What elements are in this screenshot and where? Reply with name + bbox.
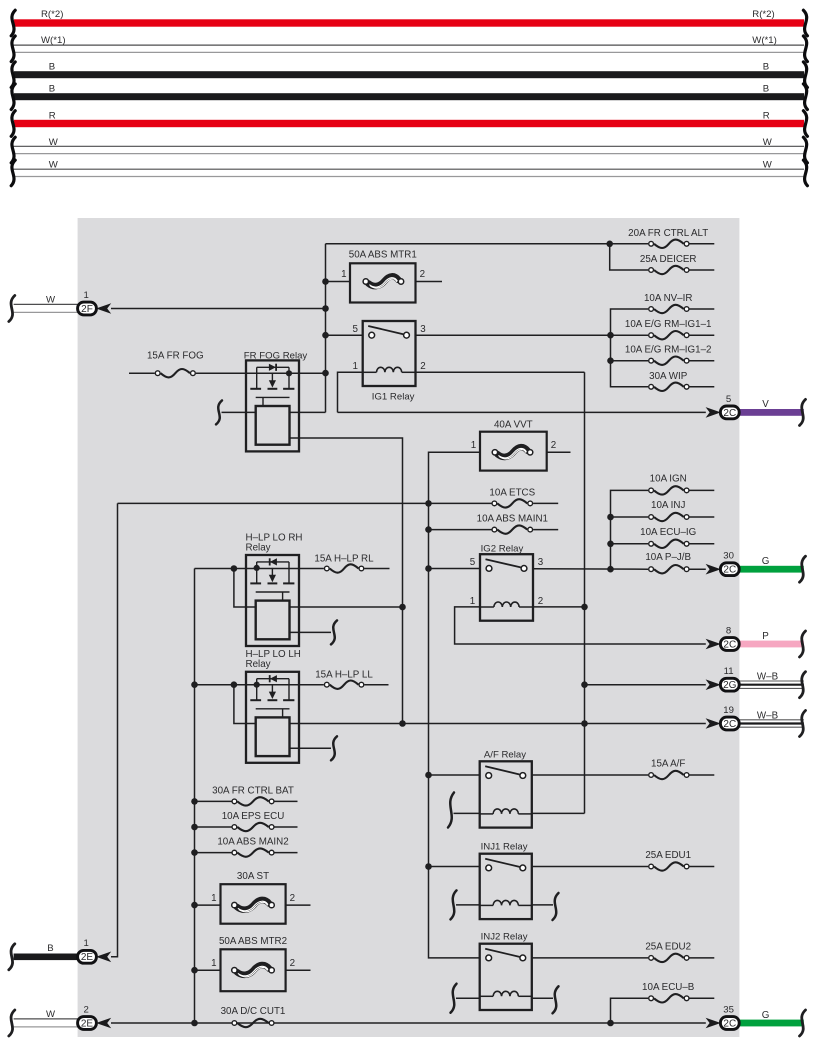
svg-text:1: 1 <box>341 269 346 280</box>
wire INJ1 switch to 25A EDU1 fuse and stub <box>532 866 648 868</box>
svg-text:W: W <box>46 295 56 306</box>
svg-text:INJ1 Relay: INJ1 Relay <box>481 841 528 852</box>
harness wire B (B) <box>14 93 804 100</box>
svg-text:W(*1): W(*1) <box>752 35 777 46</box>
svg-text:2E: 2E <box>81 1018 94 1029</box>
svg-text:40A VVT: 40A VVT <box>494 420 533 431</box>
svg-text:INJ2 Relay: INJ2 Relay <box>481 931 528 942</box>
svg-text:B: B <box>49 84 55 95</box>
wire connector 2F pin 1 to bus A <box>111 308 326 310</box>
fuse 15A FR FOG <box>161 369 190 377</box>
fuse 15A H-LP RL <box>330 564 359 572</box>
svg-text:FR FOG Relay: FR FOG Relay <box>244 350 308 361</box>
wire H-LP LH middle-pin L-link <box>234 685 256 724</box>
svg-text:5: 5 <box>470 557 476 568</box>
wire IG2 pin 2 to bus D <box>533 606 585 608</box>
svg-text:8: 8 <box>726 625 731 636</box>
wire 10A EPS ECU row <box>195 826 232 828</box>
svg-text:2: 2 <box>420 269 425 280</box>
fuse 30A D/C CUT1 <box>237 1019 268 1027</box>
svg-text:W: W <box>46 1009 56 1020</box>
wire H-LP RH middle pin to bus C <box>290 606 403 608</box>
svg-text:30A ST: 30A ST <box>237 871 269 882</box>
svg-text:B: B <box>763 84 769 95</box>
connector 2E pin 2 (W wire) <box>14 1018 78 1020</box>
wire 40A VVT pin 2 stub <box>547 451 571 453</box>
node H-LP LH input tap <box>231 681 238 688</box>
wire bus E vertical (VVT / ETCS / ABS MAIN1 / IG2-5 / A-F / INJ relays) <box>429 452 481 958</box>
svg-text:2C: 2C <box>723 1018 736 1029</box>
wire 10A ABS MAIN2 row <box>195 852 232 854</box>
wire H-LP LO RH input row <box>195 568 324 570</box>
svg-text:15A H–LP LL: 15A H–LP LL <box>315 670 373 681</box>
wire 15A H-LP RL output stub <box>364 568 389 570</box>
wire 10A ETCS stub <box>533 502 558 504</box>
fuse 10A ABS MAIN1 <box>497 525 527 533</box>
connector 2C pin 8 (P wire) <box>739 641 804 648</box>
wire 30A WIP stub <box>690 386 715 388</box>
wire 10A IGN stub <box>690 489 715 491</box>
fuse 10A E/G RM-IG1-1 <box>654 331 684 339</box>
svg-text:Relay: Relay <box>246 542 271 553</box>
svg-text:10A ECU–IG: 10A ECU–IG <box>640 527 696 538</box>
wire bottom rail 2E-2 to 2C-35 <box>111 1022 706 1024</box>
wire INJ1 relay switch feed from bus E <box>429 866 480 868</box>
wire INJ2 switch to 25A EDU2 fuse and stub <box>532 957 648 959</box>
svg-text:W: W <box>49 160 59 171</box>
svg-text:30A WIP: 30A WIP <box>649 371 688 382</box>
wire 10A ABS MAIN1 stub <box>533 529 558 531</box>
relay INJ2 <box>480 944 532 1010</box>
wire 10A E/G RM-IG1-2 stub <box>690 360 715 362</box>
harness wire R (R) <box>14 120 804 127</box>
connector 2C pin 35 (G wire) <box>739 1020 804 1027</box>
break squiggle H-LP RH output <box>331 620 337 644</box>
svg-text:B: B <box>49 62 55 73</box>
svg-text:5: 5 <box>352 324 358 335</box>
svg-text:R(*2): R(*2) <box>41 9 63 20</box>
relay H-LP LO RH (semiconductor) <box>246 555 299 646</box>
svg-text:Relay: Relay <box>246 659 271 670</box>
svg-text:2F: 2F <box>81 304 93 315</box>
wire 20A FR CTRL ALT stub <box>690 243 715 245</box>
fuse 10A INJ <box>654 513 684 521</box>
wire DEICER branch <box>610 244 649 270</box>
node IG fuse bus junctions <box>607 332 614 339</box>
wire FR FOG middle-left to break <box>222 411 256 413</box>
svg-text:30A FR CTRL BAT: 30A FR CTRL BAT <box>212 785 294 796</box>
wire 25A DEICER stub <box>690 269 715 271</box>
svg-text:30: 30 <box>723 551 734 562</box>
svg-text:W–B: W–B <box>757 710 779 721</box>
wire INJ1 coil left break <box>451 890 457 919</box>
wire A/F relay switch feed from bus E <box>429 774 480 776</box>
svg-text:2E: 2E <box>81 952 94 963</box>
wire connector 2G-11 row from bus D <box>585 684 706 686</box>
svg-text:2: 2 <box>290 958 295 969</box>
wire 10A E/G RM-IG1-2 feed <box>611 360 649 362</box>
wire IG1 pin 3 to IG fuse bus (10A E/G RM-IG1-1 row) <box>416 334 649 336</box>
svg-text:IG1 Relay: IG1 Relay <box>372 392 415 403</box>
connector 2F pin 1 (W wire) <box>14 303 78 305</box>
fuse 25A DEICER <box>654 266 684 274</box>
wire 50A ABS MTR2 pin2 stub <box>286 969 311 971</box>
wire 10A ECU-IG stub <box>690 543 715 545</box>
wire A/F relay switch to 15A A/F fuse and stub <box>532 774 648 776</box>
wire A/F relay coil right to bus D <box>532 812 585 814</box>
node bottom rail / ECU-B riser <box>607 1020 614 1027</box>
svg-text:R: R <box>763 110 770 121</box>
fuse 10A ETCS <box>497 499 527 507</box>
wire FR FOG middle row to bus A bottom corner <box>289 411 325 413</box>
svg-text:15A FR FOG: 15A FR FOG <box>147 350 204 361</box>
wire FR FOG relay output to bus C top corner <box>289 438 402 724</box>
svg-text:10A IGN: 10A IGN <box>650 473 687 484</box>
wire 50A ABS MTR1 pin 1 feed <box>326 281 351 283</box>
wire bus A vertical (feeds ABS MTR1 / 2F / IG1 / FR FOG) <box>325 244 327 413</box>
wire H-LP RH output to break <box>290 631 332 633</box>
fuse 50A ABS MTR1 <box>350 263 416 302</box>
relay INJ1 <box>480 854 532 919</box>
wire IG1 pin 5 to bus A <box>326 334 363 336</box>
node bus F junctions <box>191 681 198 688</box>
wire 30A FR CTRL BAT row <box>195 800 232 802</box>
svg-text:V: V <box>762 399 769 410</box>
svg-text:W(*1): W(*1) <box>41 35 66 46</box>
wire IG2 pin 1 to connector 2C-8 (P row) <box>455 607 706 644</box>
svg-text:2C: 2C <box>723 408 736 419</box>
relay A/F <box>480 761 532 827</box>
svg-text:2: 2 <box>84 1004 89 1015</box>
svg-text:2C: 2C <box>723 719 736 730</box>
connector 2C pin 5 (V wire) <box>739 409 804 416</box>
svg-text:1: 1 <box>84 938 89 949</box>
wire H-LP RH middle-pin L-link <box>234 569 256 608</box>
wire 10A INJ feed <box>611 516 649 518</box>
connector 2C pin 30 (G wire) <box>739 566 804 573</box>
harness wire W (W) <box>13 145 804 147</box>
svg-text:10A ABS MAIN1: 10A ABS MAIN1 <box>477 514 548 525</box>
svg-text:25A EDU1: 25A EDU1 <box>645 850 691 861</box>
node bus C junctions <box>399 604 406 611</box>
break squiggle H-LP LH output <box>331 736 337 760</box>
wire 10A ECU-IG feed <box>611 543 649 545</box>
svg-text:10A ECU–B: 10A ECU–B <box>642 982 695 993</box>
wire V output row (IG1 pin1 to connector 2C-5) <box>338 411 706 413</box>
wire 10A E/G RM-IG1-1 stub <box>690 334 715 336</box>
svg-text:R(*2): R(*2) <box>752 9 774 20</box>
svg-text:10A E/G RM–IG1–2: 10A E/G RM–IG1–2 <box>625 345 712 356</box>
fuse 25A EDU2 <box>654 954 684 962</box>
svg-text:2: 2 <box>538 596 543 607</box>
connector 2G pin 11 (W–B wire) <box>739 681 804 689</box>
svg-text:10A E/G RM–IG1–1: 10A E/G RM–IG1–1 <box>625 319 712 330</box>
svg-text:10A INJ: 10A INJ <box>651 500 685 511</box>
wire 10A ABS MAIN1 row <box>429 529 492 531</box>
relay IG2 <box>480 554 533 621</box>
harness wire B (B) <box>14 71 804 78</box>
svg-text:G: G <box>762 556 770 567</box>
wire 10A ETCS row (from bus B2 to fuse) <box>118 502 492 504</box>
svg-text:19: 19 <box>723 705 734 716</box>
wire H-LP LH middle pin row to connector 2C-19 (W-B row) <box>290 723 706 725</box>
svg-text:P: P <box>762 631 769 642</box>
harness wire W(*1) (W) <box>13 44 804 46</box>
svg-text:A/F Relay: A/F Relay <box>484 749 526 760</box>
connector 2E pin 1 (B wire) <box>14 954 78 961</box>
svg-text:50A ABS MTR2: 50A ABS MTR2 <box>219 936 287 947</box>
svg-text:1: 1 <box>471 440 476 451</box>
svg-text:1: 1 <box>352 361 357 372</box>
wire 10A ABS MAIN2 stub <box>275 852 298 854</box>
svg-text:15A A/F: 15A A/F <box>651 758 685 769</box>
fuse 10A IGN <box>654 486 684 494</box>
fuse 10A E/G RM-IG1-2 <box>654 357 684 365</box>
fuse 10A ECU-IG <box>654 540 684 548</box>
wire top rail from bus A to 20A FR CTRL ALT <box>326 243 649 245</box>
wire 10A ECU-B stub <box>690 997 715 999</box>
svg-text:2G: 2G <box>723 680 737 691</box>
fuse 10A ECU-B <box>654 994 684 1002</box>
svg-text:IG2 Relay: IG2 Relay <box>481 543 524 554</box>
wire 10A INJ stub <box>690 516 715 518</box>
svg-text:35: 35 <box>723 1004 734 1015</box>
fuse 10A P-J/B <box>654 565 684 573</box>
wire IG1 pin 2 to bus D <box>416 371 585 373</box>
wire 30A FR CTRL BAT stub <box>275 800 298 802</box>
svg-text:10A ABS MAIN2: 10A ABS MAIN2 <box>217 837 288 848</box>
fuse 10A NV-IR <box>654 305 684 313</box>
wire H-LP LO LH input row <box>195 684 324 686</box>
wire IG fuse-group bus (NV-IR to WIP) <box>611 309 649 387</box>
fuse 30A FR CTRL BAT <box>237 797 268 805</box>
svg-text:2: 2 <box>551 440 556 451</box>
svg-text:1: 1 <box>211 893 216 904</box>
fuse 20A FR CTRL ALT <box>654 240 684 248</box>
svg-text:10A P–J/B: 10A P–J/B <box>645 552 691 563</box>
svg-text:2: 2 <box>290 893 295 904</box>
svg-text:2: 2 <box>420 361 425 372</box>
fuse 10A ABS MAIN2 <box>237 848 268 856</box>
svg-text:30A D/C CUT1: 30A D/C CUT1 <box>221 1006 286 1017</box>
svg-text:15A H–LP RL: 15A H–LP RL <box>314 553 374 564</box>
fuse 50A ABS MTR2 <box>221 949 286 991</box>
wire 15A FR FOG to FR FOG relay input (crosses relay box) <box>196 372 326 374</box>
relay H-LP LO LH (semiconductor) <box>246 672 299 763</box>
node H-LP RH input tap <box>231 565 238 572</box>
wire 15A H-LP LL output stub <box>364 684 388 686</box>
wire 10A ECU-B branch riser <box>611 998 649 1023</box>
svg-text:W: W <box>763 160 773 171</box>
wire bus D vertical (IG1-2 / IG2-2 / 2G-11 / 2C-19 / A-F coil) <box>584 372 586 813</box>
node bus E junctions <box>425 500 432 507</box>
wire 50A ABS MTR1 pin 2 stub <box>416 281 443 283</box>
svg-text:10A ETCS: 10A ETCS <box>489 487 535 498</box>
svg-text:G: G <box>762 1010 770 1021</box>
svg-text:1: 1 <box>84 290 89 301</box>
svg-text:25A DEICER: 25A DEICER <box>640 254 697 265</box>
svg-text:2C: 2C <box>723 639 736 650</box>
fuse 40A VVT <box>480 432 547 471</box>
svg-text:50A ABS MTR1: 50A ABS MTR1 <box>349 250 417 261</box>
wire H-LP LH output to break <box>290 747 332 749</box>
wire battery bus B2 from 2E-1 up to ETCS row <box>111 503 118 956</box>
svg-text:B: B <box>763 62 769 73</box>
wire IG2 pin 5 feed from bus E <box>429 568 481 570</box>
wire 50A ABS MTR2 pin1 feed <box>195 969 221 971</box>
fuse 30A ST <box>221 884 286 924</box>
relay FR FOG (semiconductor) <box>246 360 299 451</box>
wire INJ1 coil right break <box>532 904 553 906</box>
svg-text:W: W <box>763 137 773 148</box>
wire 10A EPS ECU stub <box>275 826 298 828</box>
wire INJ2 coil left break <box>451 984 457 1013</box>
wire 30A ST pin2 stub <box>286 904 311 906</box>
svg-text:10A NV–IR: 10A NV–IR <box>644 293 692 304</box>
node IGN fuse bus junctions <box>607 514 614 521</box>
fuse 25A EDU1 <box>654 862 684 870</box>
svg-text:1: 1 <box>470 596 475 607</box>
wire 10A NV-IR stub <box>690 308 715 310</box>
fuse 10A EPS ECU <box>237 823 268 831</box>
svg-text:W–B: W–B <box>757 672 779 683</box>
node bus A junction dots <box>322 278 329 285</box>
svg-text:B: B <box>47 943 53 954</box>
harness wire W (W) <box>13 168 804 170</box>
wire H-LP bus F (left battery bus) <box>194 569 196 1024</box>
svg-text:3: 3 <box>538 557 544 568</box>
svg-text:10A EPS ECU: 10A EPS ECU <box>222 811 285 822</box>
svg-text:25A EDU2: 25A EDU2 <box>645 942 691 953</box>
junction block (gray box) <box>78 218 740 1037</box>
svg-text:11: 11 <box>724 666 734 677</box>
wire IG1 pin 1 down to V output row <box>338 372 363 412</box>
relay IG1 <box>363 321 416 386</box>
svg-text:R: R <box>49 110 56 121</box>
wire IGN fuse-group bus <box>611 490 649 569</box>
svg-text:5: 5 <box>726 394 731 405</box>
wire 30A ST pin1 feed <box>195 904 221 906</box>
wire IG2 pin 3 to 10A P-J/B and connector 2C-30 <box>533 568 648 570</box>
wire INJ2 coil right break <box>532 997 553 999</box>
wire A/F relay coil left break <box>448 793 454 828</box>
node bus D junctions <box>581 604 588 611</box>
fuse 15A H-LP LL <box>330 681 359 689</box>
svg-text:3: 3 <box>420 324 426 335</box>
svg-text:2C: 2C <box>723 565 736 576</box>
break squiggle FR FOG middle-left <box>216 400 222 424</box>
svg-text:1: 1 <box>211 958 216 969</box>
svg-text:W: W <box>49 137 59 148</box>
harness wire R(*2) (R) <box>14 19 804 26</box>
fuse 30A WIP <box>654 383 684 391</box>
fuse 15A A/F <box>654 771 684 779</box>
wire 15A FR FOG feed <box>129 372 155 374</box>
node junction top rail / DEICER <box>606 241 613 248</box>
svg-text:20A FR CTRL ALT: 20A FR CTRL ALT <box>628 228 708 239</box>
connector 2C pin 19 (W–B wire) <box>739 719 804 727</box>
